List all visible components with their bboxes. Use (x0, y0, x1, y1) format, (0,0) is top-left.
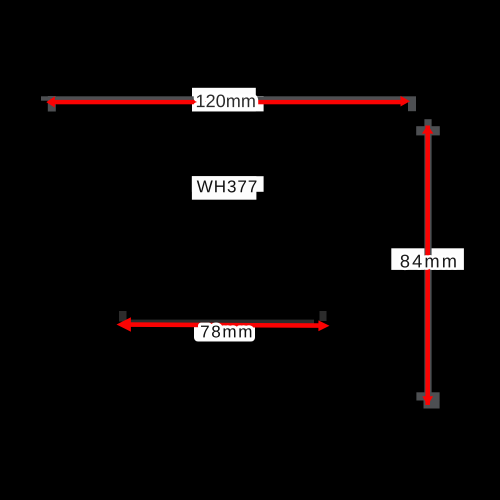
120mm label box (192, 88, 256, 112)
78mm label box (194, 321, 255, 342)
WH377 label box upper tab (192, 176, 264, 192)
bottom dimension red line (128, 325, 321, 326)
top dimension red line (53, 100, 402, 104)
right dimension bottom red arrow (422, 396, 433, 405)
120mm label text (197, 95, 255, 108)
top dimension right red arrow (401, 96, 411, 107)
WH377 label box (192, 176, 257, 200)
right dimension top gray tick (416, 126, 440, 135)
top dimension gray line (41, 96, 416, 100)
84mm label box (391, 248, 464, 270)
right dimension gray vertical line (424, 119, 431, 407)
WH377 label text (197, 180, 257, 192)
120mm label box lower tab (192, 96, 264, 111)
78mm label text (201, 325, 251, 337)
bottom dimension dark gray line (124, 320, 314, 325)
right dimension top red arrow (422, 125, 434, 133)
top dimension right gray tick (408, 97, 416, 112)
bottom dimension left dark tick (119, 311, 127, 322)
right dimension red vertical line (425, 126, 430, 406)
bottom dimension right red arrow (318, 320, 329, 331)
bottom dimension left red arrow (117, 317, 131, 331)
right dimension bottom gray corner block (424, 400, 440, 409)
84mm label text (401, 255, 456, 268)
top dimension left gray tick (48, 96, 56, 112)
right dimension bottom gray tick (416, 392, 439, 400)
bottom dimension right dark tick (320, 311, 327, 321)
top dimension left red arrow (46, 96, 55, 107)
